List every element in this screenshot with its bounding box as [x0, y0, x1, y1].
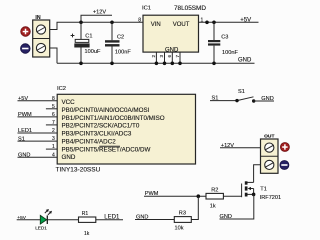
- node junction C1/+12V: [79, 21, 83, 25]
- resistor R2 1k: [206, 187, 223, 209]
- transistor T1 IRF7201: [242, 181, 282, 201]
- wire source to GND: [220, 194, 254, 219]
- svg-text:S1: S1: [238, 89, 245, 95]
- node junction C2: [110, 21, 114, 25]
- switch S1: [235, 89, 255, 103]
- IC2 pin 2 wire LED1: [18, 128, 58, 134]
- wire IN+ to +12V rail: [50, 22, 143, 29]
- svg-text:R1: R1: [82, 211, 89, 217]
- svg-text:1: 1: [52, 144, 55, 150]
- wire +5V to LED: [17, 219, 41, 221]
- svg-text:T1: T1: [260, 187, 267, 193]
- +12V net label OUT: [220, 143, 261, 149]
- svg-text:78L05SMD: 78L05SMD: [174, 5, 206, 12]
- svg-text:5: 5: [52, 104, 55, 110]
- wire R1 to LED1 label: [96, 219, 123, 221]
- minus terminal marker OUT: [280, 161, 289, 170]
- GND rail: [57, 62, 255, 64]
- GND net label R3 row: [135, 214, 174, 220]
- svg-text:+12V: +12V: [221, 143, 234, 149]
- node junction source: [252, 193, 256, 197]
- minus terminal marker: [21, 44, 31, 54]
- svg-text:PB0/PCINT0/AIN0/OC0A/MOSI: PB0/PCINT0/AIN0/OC0A/MOSI: [62, 107, 150, 114]
- svg-text:LED1: LED1: [35, 226, 47, 231]
- svg-text:VIN: VIN: [151, 22, 161, 28]
- rail junction nodes: [79, 62, 216, 66]
- node junction pin1: [205, 21, 209, 25]
- regulator IC1 78L05SMD: [138, 5, 206, 54]
- wire R2 to gate: [223, 195, 241, 197]
- svg-text:+5V: +5V: [17, 215, 26, 221]
- capacitor C2 100nF: [105, 22, 131, 63]
- plus terminal marker OUT: [280, 143, 289, 152]
- resistor R3 10k: [174, 211, 191, 232]
- svg-text:4: 4: [52, 152, 55, 158]
- svg-text:GND: GND: [220, 214, 232, 220]
- svg-text:GND: GND: [238, 58, 252, 64]
- svg-text:PB4/PCINT4/ADC2: PB4/PCINT4/ADC2: [62, 138, 117, 145]
- svg-text:IRF7201: IRF7201: [260, 195, 281, 201]
- IC2 pin 7 stub: [46, 120, 57, 126]
- wire R3 up to gate node: [191, 196, 198, 219]
- PWM net label bottom: [144, 191, 206, 197]
- S1 net label wire: [210, 95, 237, 101]
- wire VOUT to +5V: [199, 21, 259, 23]
- svg-text:C3: C3: [221, 34, 228, 40]
- svg-text:R2: R2: [211, 187, 218, 193]
- svg-text:1k: 1k: [210, 203, 216, 209]
- svg-text:10k: 10k: [175, 225, 184, 231]
- node junction R3/gate: [197, 194, 201, 198]
- svg-text:100uF: 100uF: [85, 49, 101, 55]
- IC2 pin 1 stub: [46, 144, 57, 150]
- svg-text:PB3/PCINT3/CLKI/ADC3: PB3/PCINT3/CLKI/ADC3: [62, 131, 132, 138]
- +12V supply flag: [81, 10, 112, 23]
- wire drain to OUT: [254, 165, 261, 183]
- svg-text:PB1/PCINT1/AIN1/OC0B/INT0/MISO: PB1/PCINT1/AIN1/OC0B/INT0/MISO: [62, 115, 165, 122]
- wire LED to R1: [47, 219, 78, 221]
- svg-text:IC1: IC1: [142, 6, 151, 12]
- wire IN- down to GND rail: [50, 48, 57, 63]
- capacitor C3 100nF: [208, 22, 238, 63]
- connector X-IN: [33, 15, 50, 57]
- svg-text:VCC: VCC: [62, 99, 76, 106]
- svg-text:IC2: IC2: [57, 86, 66, 92]
- svg-text:GND: GND: [62, 154, 76, 161]
- svg-text:6: 6: [52, 112, 55, 118]
- resistor R1 1k: [79, 211, 96, 237]
- IC2 pin 4 wire GND: [18, 152, 58, 158]
- plus terminal marker: [21, 27, 31, 37]
- microcontroller IC2 TINY13-20SSU: [56, 86, 196, 174]
- GND net label at switch: [254, 96, 274, 102]
- svg-text:PB2/PCINT2/SCK/ADC1/T0: PB2/PCINT2/SCK/ADC1/T0: [62, 123, 140, 130]
- IC2 pin 6 wire PWM: [18, 112, 58, 118]
- capacitor C1 100uF: [71, 22, 101, 63]
- svg-text:LED1: LED1: [104, 215, 120, 221]
- svg-text:2: 2: [52, 128, 55, 134]
- IC2 pin 8 wire +5V: [18, 96, 58, 102]
- svg-text:1k: 1k: [84, 231, 90, 236]
- connector X-OUT: [261, 133, 279, 173]
- svg-text:+5V: +5V: [240, 17, 251, 23]
- svg-text:100nF: 100nF: [115, 49, 131, 55]
- svg-text:C2: C2: [117, 34, 124, 40]
- IC2 pin 3 wire S1: [18, 136, 58, 142]
- svg-text:8: 8: [138, 17, 141, 23]
- svg-text:100nF: 100nF: [222, 50, 238, 56]
- svg-text:C1: C1: [85, 33, 92, 39]
- LED LED1: [35, 209, 52, 231]
- node junction C3: [212, 21, 216, 25]
- IC2 pin 5 stub: [46, 104, 57, 110]
- svg-text:+12V: +12V: [93, 10, 106, 16]
- svg-text:PB5/PCINT5/RESET/ADC0/DW: PB5/PCINT5/RESET/ADC0/DW: [62, 146, 151, 153]
- svg-text:TINY13-20SSU: TINY13-20SSU: [56, 166, 101, 173]
- svg-text:VOUT: VOUT: [173, 22, 190, 28]
- IC1 ground pins 2 3 6 7: [151, 52, 180, 63]
- svg-text:R3: R3: [179, 211, 186, 217]
- svg-text:3: 3: [52, 136, 55, 142]
- svg-text:8: 8: [52, 96, 55, 102]
- svg-text:7: 7: [52, 120, 55, 126]
